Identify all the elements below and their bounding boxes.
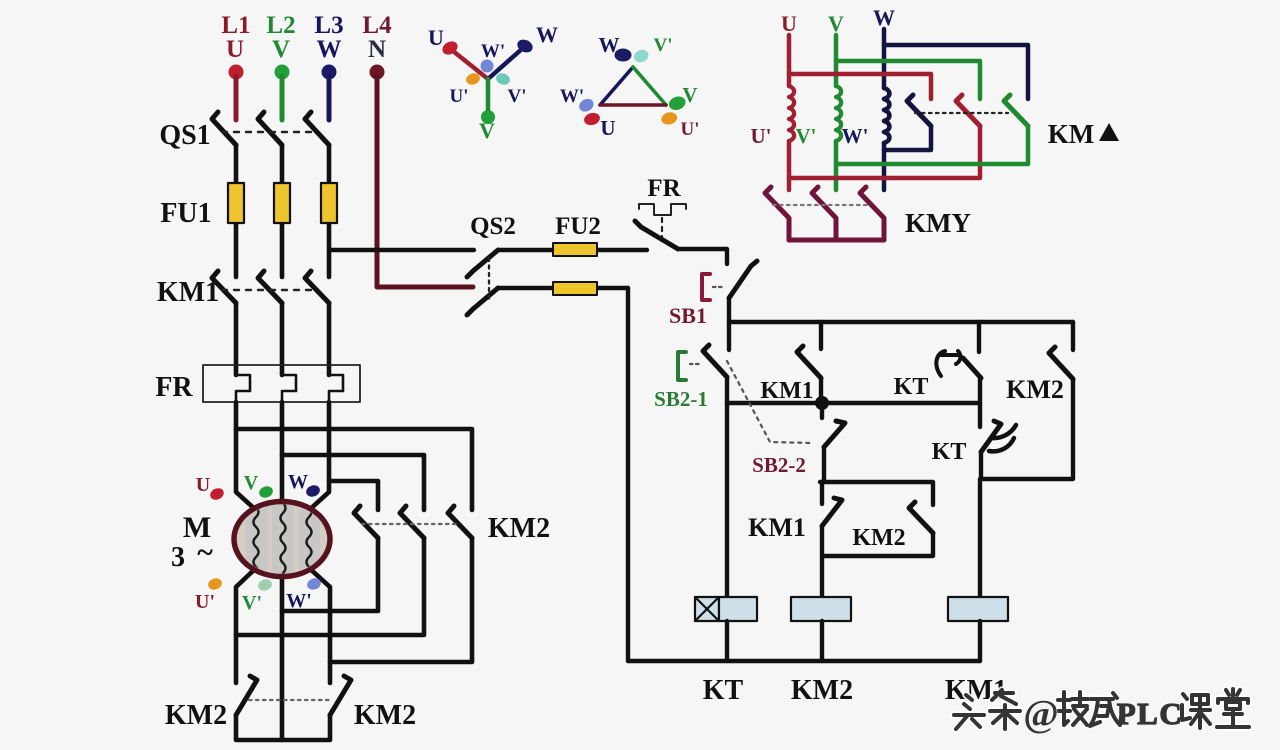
node A junction <box>727 396 980 410</box>
contactor KM1 holding contact <box>760 322 821 404</box>
svg-text:U: U <box>428 25 444 50</box>
svg-text:KM2: KM2 <box>852 525 905 551</box>
wire FR to motor V <box>280 402 285 512</box>
contactor KM2 interlock contact <box>981 322 1073 479</box>
svg-text:KM2: KM2 <box>488 513 550 544</box>
svg-text:U': U' <box>195 591 215 613</box>
svg-text:SB2-2: SB2-2 <box>752 453 806 477</box>
svg-text:W: W <box>288 471 308 493</box>
winding V coil <box>836 35 841 190</box>
wire KM star point <box>789 238 884 243</box>
svg-text:W': W' <box>481 41 505 62</box>
wire motor V' down <box>280 565 285 740</box>
contactor KM2 star contact right <box>249 676 416 731</box>
svg-text:W': W' <box>842 124 869 148</box>
svg-text:@: @ <box>1023 693 1058 735</box>
svg-text:FU2: FU2 <box>555 213 601 240</box>
svg-text:KM: KM <box>1048 119 1095 149</box>
wire FR to motor W <box>308 402 329 511</box>
motor terminal U' <box>195 576 223 613</box>
svg-text:U: U <box>781 11 797 36</box>
motor terminal U <box>196 474 226 502</box>
svg-text:KM1: KM1 <box>760 378 813 404</box>
contactor KM2 delta contacts <box>354 506 550 544</box>
winding U coil <box>789 35 794 190</box>
svg-text:KM2: KM2 <box>791 675 853 706</box>
linked button SB2-2 <box>727 361 845 482</box>
coil KM1 <box>945 597 1008 706</box>
wire star W spoke <box>488 48 523 79</box>
svg-text:V: V <box>244 472 259 494</box>
svg-text:U: U <box>196 474 210 496</box>
motor terminal V <box>244 472 275 500</box>
control bus node B <box>729 320 1073 324</box>
node L2 <box>266 12 295 120</box>
contactor KM1 sequence contact <box>748 482 842 597</box>
svg-text:KM1: KM1 <box>748 513 806 542</box>
wire star V spoke <box>486 79 491 114</box>
svg-text:PLC: PLC <box>1117 696 1184 731</box>
svg-text:L4: L4 <box>362 12 392 39</box>
disconnect switch QS2 <box>467 213 516 315</box>
wire W to KM2 delta branch 1 <box>329 481 378 510</box>
wire FR to motor U <box>236 402 257 511</box>
svg-text:L1: L1 <box>221 12 250 39</box>
svg-text:FU1: FU1 <box>160 198 211 229</box>
wire KM2-1 to V' <box>282 538 378 611</box>
fuse FU1 <box>160 183 337 229</box>
motor M 3~ <box>171 500 330 580</box>
svg-text:U': U' <box>681 119 700 140</box>
svg-text:KT: KT <box>703 675 744 706</box>
node L1 <box>221 12 250 120</box>
wire FR contact to SB1 <box>678 249 727 264</box>
contactor KM2 bypass contact <box>820 482 933 556</box>
svg-text:V': V' <box>796 124 817 148</box>
svg-text:L3: L3 <box>314 12 343 39</box>
control neutral wire down left <box>626 288 630 661</box>
stop button SB1 <box>669 261 757 328</box>
star connection diagram <box>428 22 558 143</box>
svg-text:U': U' <box>450 86 469 107</box>
wire L3 QS1 to KM1 <box>327 145 332 277</box>
svg-text:KM2: KM2 <box>1006 375 1064 404</box>
wire delta bottom side <box>600 103 666 107</box>
wire star U spoke <box>453 51 488 79</box>
svg-text:U: U <box>226 36 244 63</box>
contactor KM delta contact 3 <box>836 95 1028 164</box>
start button SB2-1 <box>654 322 729 411</box>
wire star point <box>236 715 330 740</box>
svg-text:~: ~ <box>197 536 213 569</box>
svg-text:KMY: KMY <box>905 208 971 238</box>
svg-text:QS1: QS1 <box>159 120 210 151</box>
svg-text:V': V' <box>508 86 527 107</box>
thermal relay FR NC contact <box>635 175 686 249</box>
svg-text:SB1: SB1 <box>669 303 707 328</box>
wire KM2-3 to W' <box>330 538 472 662</box>
svg-text:W: W <box>873 5 895 30</box>
svg-text:3: 3 <box>171 542 185 573</box>
wire KM2-2 to U' <box>236 538 424 635</box>
disconnect switch QS1 <box>159 112 329 151</box>
motor terminal W' <box>286 576 322 612</box>
svg-text:FR: FR <box>647 175 681 202</box>
wire delta left side <box>600 67 633 105</box>
svg-text:W: W <box>536 22 558 47</box>
delta connection diagram <box>560 33 700 140</box>
winding W coil <box>884 29 889 190</box>
wire KM1 to FR <box>234 303 239 375</box>
svg-text:V': V' <box>242 592 262 614</box>
svg-text:KM1: KM1 <box>157 277 219 308</box>
contactor KM2 star contact left <box>165 676 257 731</box>
fuse FU2 <box>553 213 601 295</box>
svg-text:U': U' <box>751 124 772 148</box>
wire W to KM delta 3 <box>884 45 1028 99</box>
control return bus <box>628 659 980 663</box>
wire U to KM delta 1 <box>789 74 931 99</box>
wire motor W' down <box>308 567 330 683</box>
contactor KM delta contact 2 <box>789 95 980 178</box>
svg-text:U: U <box>600 116 615 140</box>
wire motor U' down <box>236 567 257 683</box>
svg-text:KT: KT <box>932 439 967 465</box>
node L3 <box>314 12 343 120</box>
svg-text:V: V <box>828 11 844 36</box>
coil KT <box>695 597 757 706</box>
svg-text:V': V' <box>654 35 673 56</box>
svg-text:FR: FR <box>155 372 193 403</box>
wire V to KM delta 2 <box>836 61 980 99</box>
contactor KM delta contact 1 <box>884 95 931 150</box>
svg-text:KT: KT <box>894 374 929 400</box>
watermark toutiao logo text <box>954 689 1249 735</box>
contactor KM star contact 2 <box>812 187 836 240</box>
node L4 / N wire <box>362 12 473 287</box>
svg-text:KM2: KM2 <box>354 700 416 731</box>
contactor KM star contact 1 <box>765 187 789 240</box>
svg-text:N: N <box>368 36 386 63</box>
contactor KM1 main contacts <box>157 271 329 308</box>
wire to KM1 coil <box>978 479 982 597</box>
wire V to KM2 delta branch 2 <box>282 455 424 510</box>
wire L2 QS1 to KM1 <box>280 145 285 277</box>
time relay KT delayed contact upper <box>894 322 981 427</box>
wire node A to KT coil <box>725 403 729 597</box>
svg-text:V: V <box>272 36 290 63</box>
coil KM2 <box>791 597 853 706</box>
wire L1 QS1 to KM1 <box>234 145 239 277</box>
motor terminal W <box>288 471 321 499</box>
contactor KM star contact 3 <box>773 187 884 240</box>
svg-text:L2: L2 <box>266 12 295 39</box>
time relay KT delayed contact lower <box>932 421 1016 479</box>
label KM delta <box>1048 119 1119 149</box>
thermal relay FR heaters <box>155 365 360 403</box>
wire W phase to QS2 <box>329 248 474 252</box>
motor terminal V' <box>242 577 273 614</box>
wire U to KM2 delta branch 3 <box>236 429 472 510</box>
svg-text:W: W <box>317 36 342 63</box>
svg-text:QS2: QS2 <box>470 213 516 240</box>
svg-text:W': W' <box>286 590 312 612</box>
wire QS2 to FU2 <box>498 248 647 252</box>
wire delta right side <box>633 67 666 105</box>
svg-text:KM2: KM2 <box>165 700 227 731</box>
svg-text:SB2-1: SB2-1 <box>654 387 708 411</box>
